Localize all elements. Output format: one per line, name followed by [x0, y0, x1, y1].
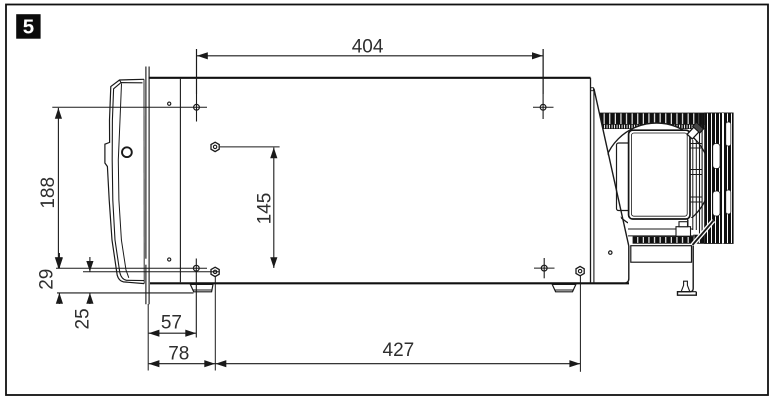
hex screw bottom right [576, 266, 584, 275]
coil slot 1 [713, 144, 720, 169]
cover top bevel [120, 80, 122, 83]
dimension 29 [58, 253, 60, 304]
screw crosshair top right [533, 49, 554, 119]
dimension 404 [197, 49, 544, 94]
centerline hex top [220, 146, 280, 148]
fan shroud circle [603, 123, 711, 231]
condenser base pan [631, 246, 692, 263]
condenser coil right hatch column [705, 113, 734, 244]
front cover outer edge [105, 79, 144, 283]
centerline A [56, 267, 207, 269]
shroud lower casing [628, 218, 700, 236]
dot lower on panel [168, 258, 171, 261]
clamp block on shroud base [676, 227, 691, 237]
dimension 25 [89, 257, 91, 304]
mounting flange line 1 [145, 67, 147, 305]
svg-text:188: 188 [38, 177, 59, 209]
svg-text:25: 25 [72, 308, 93, 329]
mounting flange line 2 [148, 67, 150, 305]
motor housing inner line [631, 133, 687, 216]
hatch patch right of base pan [694, 235, 705, 243]
centerline top screws [52, 106, 207, 108]
condenser fin band 2 [602, 124, 721, 128]
cone under leg [681, 281, 690, 291]
centerline B [83, 271, 219, 273]
coil slot 2 [713, 191, 720, 216]
motor mount arm 1 [690, 143, 702, 145]
condenser hatch band top [600, 113, 733, 124]
svg-text:427: 427 [383, 340, 415, 361]
coil side plate lines [699, 113, 701, 244]
svg-text:57: 57 [161, 313, 182, 334]
body top edge [149, 77, 591, 79]
shroud base line 2 [628, 235, 704, 237]
svg-text:404: 404 [352, 36, 384, 57]
cover latch circle [122, 147, 132, 157]
coil slot 4 [726, 190, 731, 214]
dot on sloped panel [609, 251, 612, 254]
panel division line [179, 79, 181, 282]
figure number 5 [16, 14, 40, 39]
hex screw mid [211, 142, 219, 151]
fan hub rect behind motor [617, 143, 631, 211]
condenser panel right edge [624, 246, 629, 283]
coil column white divider [722, 113, 724, 244]
right foot [552, 284, 576, 291]
leg foot bar [678, 291, 697, 293]
screw crosshair top left [194, 49, 200, 122]
shroud base line 1 [628, 228, 693, 230]
dot upper on panel [168, 102, 171, 105]
bolt at motor top right [686, 122, 703, 140]
body bottom edge [150, 282, 629, 284]
front cover inner edge [112, 83, 144, 281]
bottom hatch band [633, 237, 705, 244]
svg-text:145: 145 [255, 193, 276, 225]
dimension 188 [57, 108, 59, 268]
left foot [190, 284, 213, 291]
dimension 427 [216, 363, 581, 365]
motor mount arm 3 [690, 196, 702, 198]
support strut diagonal [693, 221, 714, 246]
coil slot 3 [726, 122, 731, 146]
cover side face line [118, 84, 129, 278]
motor mount arm 2 [690, 169, 702, 171]
dimension 78 [149, 363, 216, 365]
dimension 57 [149, 332, 197, 334]
svg-text:78: 78 [168, 344, 189, 365]
corner nub [591, 88, 594, 91]
condenser rear leg [678, 246, 697, 296]
screw crosshair bottom left [193, 259, 199, 338]
sloped condenser panel edge [594, 89, 629, 247]
flange slot cutout [145, 259, 148, 265]
dimension 145 [273, 148, 275, 269]
body right seam line 2 [593, 89, 595, 284]
bottom plate line [57, 292, 194, 294]
hex screw bottom left [211, 267, 219, 276]
svg-text:5: 5 [23, 15, 34, 38]
screw crosshair bottom right [534, 258, 555, 278]
body right seam line 1 [590, 78, 592, 283]
motor housing [629, 130, 690, 219]
front cover face line [143, 79, 145, 283]
svg-text:29: 29 [37, 269, 58, 290]
